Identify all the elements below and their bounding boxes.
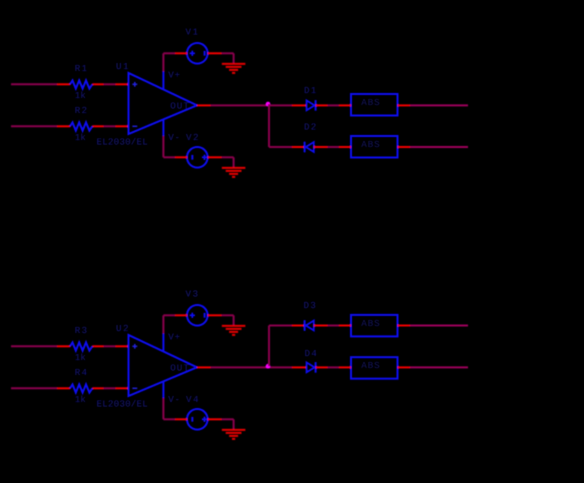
svg-text:EL2030/EL: EL2030/EL bbox=[97, 399, 148, 410]
svg-text:ABS: ABS bbox=[361, 139, 380, 150]
svg-text:1k: 1k bbox=[75, 352, 86, 363]
svg-text:D1: D1 bbox=[304, 85, 317, 96]
svg-text:V3: V3 bbox=[186, 288, 200, 299]
svg-text:V2: V2 bbox=[186, 132, 200, 143]
svg-text:EL2030/EL: EL2030/EL bbox=[97, 137, 148, 148]
svg-text:V-: V- bbox=[168, 132, 180, 143]
svg-text:R3: R3 bbox=[75, 325, 88, 336]
svg-text:D4: D4 bbox=[305, 348, 318, 359]
svg-text:OUT: OUT bbox=[170, 101, 190, 112]
svg-text:U1: U1 bbox=[116, 61, 130, 72]
svg-text:U2: U2 bbox=[116, 323, 130, 334]
svg-text:R4: R4 bbox=[75, 367, 88, 378]
svg-text:V4: V4 bbox=[186, 394, 200, 405]
svg-text:V-: V- bbox=[168, 394, 180, 405]
svg-text:OUT: OUT bbox=[170, 363, 190, 374]
svg-text:1k: 1k bbox=[75, 132, 86, 143]
svg-text:D3: D3 bbox=[304, 300, 317, 311]
svg-text:D2: D2 bbox=[304, 122, 317, 133]
svg-text:V+: V+ bbox=[168, 70, 180, 81]
svg-text:ABS: ABS bbox=[361, 360, 380, 371]
svg-text:R1: R1 bbox=[75, 63, 88, 74]
svg-text:1k: 1k bbox=[75, 394, 86, 405]
svg-text:ABS: ABS bbox=[361, 97, 380, 108]
svg-text:R2: R2 bbox=[75, 105, 88, 116]
svg-text:V1: V1 bbox=[186, 26, 200, 37]
svg-text:V+: V+ bbox=[168, 332, 180, 343]
svg-text:1k: 1k bbox=[75, 90, 86, 101]
svg-text:ABS: ABS bbox=[361, 318, 380, 329]
